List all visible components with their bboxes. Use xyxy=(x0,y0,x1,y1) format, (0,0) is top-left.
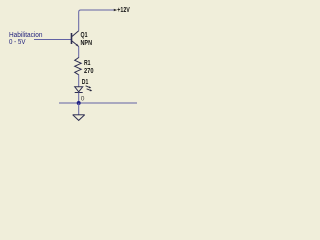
wire base input xyxy=(34,39,71,41)
transistor Q1 xyxy=(72,31,79,47)
wire ground stub xyxy=(78,103,80,115)
svg-text:D1: D1 xyxy=(82,79,89,86)
svg-text:+12V: +12V xyxy=(117,7,130,14)
ground xyxy=(73,115,85,121)
diode D1 (LED) xyxy=(75,87,83,93)
svg-text:R1: R1 xyxy=(84,60,91,67)
wire diode to ground rail xyxy=(78,93,80,104)
junction dot xyxy=(77,101,81,105)
svg-text:0: 0 xyxy=(81,95,85,102)
wire resistor to diode xyxy=(78,75,80,87)
LED emission arrows xyxy=(86,86,91,91)
power +12V arrow xyxy=(114,9,117,12)
svg-text:NPN: NPN xyxy=(81,40,93,47)
svg-text:270: 270 xyxy=(84,68,94,75)
wire ground rail xyxy=(59,102,137,104)
resistor R1 xyxy=(75,58,82,75)
svg-text:Q1: Q1 xyxy=(81,32,88,39)
svg-text:0 - 5V: 0 - 5V xyxy=(9,39,26,46)
wire collector to +12V xyxy=(79,10,115,31)
wire emitter to resistor xyxy=(78,47,80,59)
svg-text:Habilitacion: Habilitacion xyxy=(9,32,43,39)
